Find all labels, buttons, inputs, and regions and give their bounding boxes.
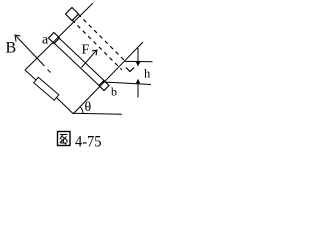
wire h dimension upper arrow xyxy=(137,48,139,63)
svg-text:F: F xyxy=(82,43,90,58)
svg-text:θ: θ xyxy=(85,100,92,115)
svg-text:b: b xyxy=(111,85,117,99)
wire lead from rail to resistor xyxy=(25,70,36,80)
node F arrowhead xyxy=(92,50,97,56)
wire phantom rod lower edge dashed xyxy=(72,20,122,70)
node B arrowhead xyxy=(15,35,21,42)
wire B field arrow line xyxy=(16,36,45,66)
node phantom rod b end corner xyxy=(126,68,134,72)
svg-text:B: B xyxy=(6,40,17,57)
node phantom rod end cap diamond xyxy=(66,8,79,21)
wire h dimension lower arrow xyxy=(137,83,139,98)
node caption tu character xyxy=(58,132,71,146)
wire upper level line xyxy=(125,60,153,63)
wire incline base line xyxy=(73,113,123,114)
resistor R xyxy=(34,77,59,100)
svg-text:a: a xyxy=(42,33,49,48)
wire rail R1 xyxy=(25,3,93,70)
wire F force arrow xyxy=(82,51,97,68)
node rod end cap b diamond xyxy=(99,81,109,91)
svg-text:4-75: 4-75 xyxy=(75,134,102,151)
svg-text:h: h xyxy=(144,67,151,81)
wire rod ab lower edge xyxy=(54,43,99,86)
node rod end cap a diamond xyxy=(49,33,60,44)
wire lead resistor to incline vertex xyxy=(57,98,74,115)
wire rod ab upper edge xyxy=(59,38,104,81)
wire phantom rod upper edge dashed xyxy=(78,14,127,63)
wire rail R2 incline hypotenuse xyxy=(74,42,144,114)
node theta arc xyxy=(80,107,83,114)
wire lower level line xyxy=(103,82,151,85)
